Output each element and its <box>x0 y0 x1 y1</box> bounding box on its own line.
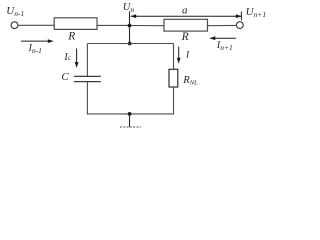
svg-text:C: C <box>61 71 69 83</box>
current arrow Ic <box>76 49 78 63</box>
node dot on top rail <box>128 24 132 28</box>
ground node dot <box>128 112 132 116</box>
resistor RNL <box>169 69 178 87</box>
dimension arrow a <box>131 12 241 21</box>
bottom rail wire <box>87 113 174 115</box>
ground bar <box>120 126 141 128</box>
terminal circle Un+1 <box>236 22 243 29</box>
ground stub wire <box>129 114 131 127</box>
wire node Un to R2 <box>130 25 165 27</box>
node dot on inner line <box>128 42 132 46</box>
wire Rnl branch upper <box>173 44 175 70</box>
wire R1 to node Un <box>97 24 130 26</box>
wire terminal1 to R1 <box>18 24 54 26</box>
current arrow I <box>178 47 180 59</box>
wire capacitor branch upper <box>86 44 88 77</box>
current arrow In+1 <box>215 37 237 39</box>
inner line node to branches <box>88 43 174 45</box>
svg-text:Ic: Ic <box>63 52 71 63</box>
svg-text:R: R <box>67 30 75 42</box>
wire Rnl branch lower <box>173 87 175 114</box>
wire Un vertical <box>129 12 131 44</box>
current arrow In-1 <box>21 40 49 42</box>
terminal circle Un-1 <box>11 22 18 29</box>
wire R2 to terminal2 <box>208 24 237 26</box>
svg-text:R: R <box>181 31 189 43</box>
resistor R2 <box>164 19 208 31</box>
svg-text:a: a <box>182 5 188 17</box>
capacitor C plates <box>74 76 101 81</box>
resistor R1 <box>54 18 97 30</box>
wire capacitor branch lower <box>86 82 88 115</box>
